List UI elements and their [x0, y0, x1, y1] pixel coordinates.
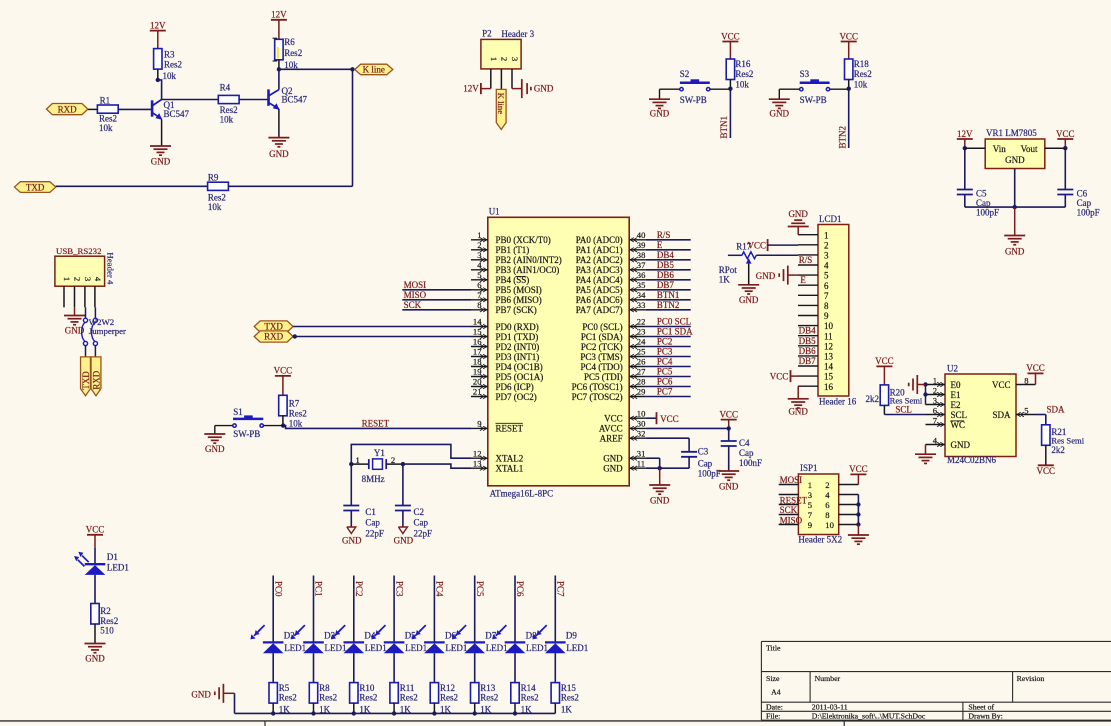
svg-text:4: 4	[933, 435, 938, 445]
svg-text:PC1 SDA: PC1 SDA	[657, 327, 693, 337]
svg-text:DB6: DB6	[657, 270, 675, 280]
svg-text:1: 1	[824, 230, 829, 240]
svg-text:39: 39	[637, 240, 646, 250]
svg-text:5: 5	[1024, 405, 1028, 415]
svg-text:1: 1	[356, 455, 360, 465]
svg-text:PD6 (ICP): PD6 (ICP)	[496, 382, 534, 392]
svg-text:Cap: Cap	[698, 459, 713, 469]
svg-text:19: 19	[473, 367, 482, 377]
svg-text:12V: 12V	[957, 129, 973, 139]
svg-text:PB2 (AIN0/INT2): PB2 (AIN0/INT2)	[496, 255, 562, 265]
svg-text:4: 4	[824, 261, 829, 271]
svg-text:Res2: Res2	[359, 692, 377, 702]
svg-text:LED1: LED1	[365, 643, 387, 653]
svg-text:VCC: VCC	[719, 409, 738, 419]
svg-text:M24C02BN6: M24C02BN6	[947, 455, 997, 465]
svg-text:PC4: PC4	[657, 357, 673, 367]
svg-text:RESET: RESET	[496, 424, 524, 434]
svg-text:LED1: LED1	[284, 643, 306, 653]
svg-text:7: 7	[824, 291, 829, 301]
svg-text:20: 20	[473, 377, 482, 387]
svg-text:R2: R2	[100, 606, 111, 616]
svg-text:VCC: VCC	[992, 380, 1011, 390]
svg-text:LED1: LED1	[325, 643, 347, 653]
svg-text:Res2: Res2	[284, 48, 302, 58]
svg-text:GND: GND	[951, 440, 971, 450]
svg-text:VCC: VCC	[1056, 129, 1075, 139]
svg-text:PC3: PC3	[394, 581, 404, 597]
svg-text:Revision: Revision	[1017, 674, 1045, 683]
svg-text:22pF: 22pF	[414, 529, 433, 539]
svg-text:5: 5	[808, 500, 812, 510]
svg-text:10k: 10k	[735, 80, 749, 90]
svg-text:SCK: SCK	[780, 505, 798, 515]
svg-text:8MHz: 8MHz	[362, 474, 385, 484]
svg-text:33: 33	[637, 300, 646, 310]
svg-text:Res2: Res2	[854, 69, 872, 79]
svg-text:R/S: R/S	[657, 230, 671, 240]
svg-text:ISP1: ISP1	[800, 463, 818, 473]
svg-text:GND: GND	[756, 271, 776, 281]
svg-text:Vin: Vin	[993, 144, 1006, 154]
svg-text:Res2: Res2	[289, 408, 307, 418]
svg-text:Res2: Res2	[561, 692, 579, 702]
svg-text:SDA: SDA	[1047, 404, 1066, 414]
svg-text:21: 21	[473, 387, 482, 397]
svg-text:8: 8	[825, 510, 829, 520]
svg-text:PB7 (SCK): PB7 (SCK)	[496, 305, 537, 315]
svg-text:Y1: Y1	[374, 448, 385, 458]
svg-text:SCK: SCK	[404, 300, 422, 310]
svg-text:100pF: 100pF	[1077, 207, 1100, 217]
svg-text:PC2 (TCK): PC2 (TCK)	[581, 342, 623, 352]
svg-text:S1: S1	[233, 407, 243, 417]
svg-text:PC4: PC4	[435, 581, 445, 597]
svg-text:24: 24	[637, 337, 646, 347]
svg-text:32: 32	[637, 428, 646, 438]
svg-text:U2: U2	[947, 364, 958, 374]
svg-text:Header 3: Header 3	[501, 29, 534, 39]
svg-text:BC547: BC547	[164, 109, 190, 119]
svg-text:E2: E2	[951, 400, 961, 410]
svg-text:13: 13	[473, 458, 482, 468]
svg-text:PB0 (XCK/T0): PB0 (XCK/T0)	[496, 235, 551, 245]
svg-text:15: 15	[824, 372, 834, 382]
svg-text:8: 8	[824, 301, 829, 311]
svg-text:A4: A4	[771, 687, 781, 696]
svg-text:C3: C3	[698, 447, 709, 457]
svg-text:USB_RS232: USB_RS232	[56, 246, 101, 256]
svg-text:2: 2	[499, 57, 509, 61]
svg-text:PC6: PC6	[515, 581, 525, 597]
svg-text:D1: D1	[107, 552, 118, 562]
svg-text:VCC: VCC	[86, 525, 105, 535]
svg-text:27: 27	[637, 367, 646, 377]
svg-text:3: 3	[808, 490, 812, 500]
svg-text:RXD: RXD	[58, 104, 78, 114]
svg-text:10k: 10k	[289, 419, 303, 429]
svg-text:Res2: Res2	[480, 692, 498, 702]
svg-text:PA6 (ADC6): PA6 (ADC6)	[576, 295, 623, 305]
svg-text:PB1 (T1): PB1 (T1)	[496, 245, 530, 255]
svg-text:1: 1	[933, 375, 937, 385]
svg-text:GND: GND	[719, 482, 739, 492]
svg-text:Res2: Res2	[99, 113, 117, 123]
svg-text:Res2: Res2	[220, 105, 238, 115]
svg-text:RXD: RXD	[91, 370, 101, 390]
svg-text:MISO: MISO	[780, 515, 803, 525]
svg-text:SDA: SDA	[992, 410, 1011, 420]
svg-text:9: 9	[824, 311, 829, 321]
svg-text:C4: C4	[739, 438, 750, 448]
svg-text:LED1: LED1	[445, 643, 467, 653]
svg-text:GND: GND	[205, 444, 225, 454]
svg-text:Res2: Res2	[164, 59, 182, 69]
svg-text:DB4: DB4	[799, 326, 817, 336]
svg-text:34: 34	[637, 290, 646, 300]
svg-text:MOSI: MOSI	[780, 475, 803, 485]
svg-text:GND: GND	[191, 689, 211, 699]
svg-text:S3: S3	[800, 69, 810, 79]
svg-text:XTAL1: XTAL1	[496, 464, 524, 474]
svg-text:GND: GND	[342, 536, 362, 546]
svg-text:4: 4	[825, 490, 830, 500]
svg-text:PC3: PC3	[657, 347, 673, 357]
svg-text:GND: GND	[269, 149, 289, 159]
svg-text:23: 23	[637, 327, 646, 337]
svg-text:LED1: LED1	[107, 563, 129, 573]
svg-text:14: 14	[824, 362, 834, 372]
svg-text:12V: 12V	[150, 20, 166, 30]
svg-text:SCL: SCL	[951, 410, 968, 420]
svg-text:VCC: VCC	[721, 31, 740, 41]
svg-text:3: 3	[933, 395, 937, 405]
svg-text:GND: GND	[788, 407, 808, 417]
svg-text:11: 11	[824, 331, 833, 341]
svg-text:R9: R9	[208, 172, 219, 182]
svg-text:R18: R18	[854, 59, 870, 69]
svg-text:VCC: VCC	[770, 372, 789, 382]
svg-text:R17: R17	[736, 241, 752, 251]
svg-text:26: 26	[637, 357, 646, 367]
svg-text:GND: GND	[603, 454, 623, 464]
svg-text:PB6 (MISO): PB6 (MISO)	[496, 295, 542, 305]
svg-text:VCC: VCC	[849, 464, 868, 474]
svg-text:510: 510	[100, 626, 114, 636]
svg-text:D:\Elektronika_soft\..\MUT.Sch: D:\Elektronika_soft\..\MUT.SchDoc	[812, 712, 926, 721]
svg-text:AREF: AREF	[600, 434, 623, 444]
svg-text:12: 12	[473, 448, 482, 458]
svg-text:PA1 (ADC1): PA1 (ADC1)	[576, 245, 623, 255]
svg-text:PC6 (TOSC1): PC6 (TOSC1)	[572, 382, 623, 392]
svg-text:Res2: Res2	[440, 692, 458, 702]
svg-text:PC0: PC0	[273, 581, 283, 597]
svg-text:R7: R7	[289, 398, 300, 408]
svg-text:Title: Title	[766, 643, 781, 652]
svg-text:7: 7	[808, 510, 813, 520]
svg-text:12V: 12V	[271, 10, 287, 20]
svg-text:16: 16	[824, 382, 834, 392]
svg-text:2: 2	[824, 240, 829, 250]
svg-text:31: 31	[637, 448, 646, 458]
svg-text:18: 18	[473, 357, 482, 367]
svg-text:E: E	[657, 240, 663, 250]
svg-text:GND: GND	[603, 464, 623, 474]
svg-text:10k: 10k	[854, 80, 868, 90]
svg-text:PD0 (RXD): PD0 (RXD)	[496, 322, 539, 332]
svg-text:PD2 (INT0): PD2 (INT0)	[496, 342, 540, 352]
svg-text:GND: GND	[394, 536, 414, 546]
svg-text:VCC: VCC	[1037, 466, 1056, 476]
svg-text:PD5 (OC1A): PD5 (OC1A)	[496, 372, 544, 382]
svg-text:GND: GND	[1005, 247, 1025, 257]
svg-text:12: 12	[824, 341, 833, 351]
svg-text:R6: R6	[284, 37, 295, 47]
svg-text:VCC: VCC	[839, 31, 858, 41]
svg-text:PB3 (AIN1/OC0): PB3 (AIN1/OC0)	[496, 265, 560, 275]
svg-text:SW-PB: SW-PB	[680, 95, 707, 105]
svg-text:ATmega16L-8PC: ATmega16L-8PC	[490, 488, 553, 498]
svg-text:10: 10	[825, 520, 834, 530]
svg-text:Cap: Cap	[414, 518, 429, 528]
svg-text:PD7 (OC2): PD7 (OC2)	[496, 392, 537, 402]
svg-text:DB4: DB4	[657, 250, 675, 260]
svg-text:BC547: BC547	[282, 94, 308, 104]
svg-text:GND: GND	[650, 496, 670, 506]
svg-text:VR1 LM7805: VR1 LM7805	[986, 128, 1037, 138]
svg-text:Res2: Res2	[735, 69, 753, 79]
svg-text:1: 1	[808, 480, 812, 490]
svg-text:AVCC: AVCC	[599, 424, 623, 434]
svg-text:Header 4: Header 4	[105, 252, 115, 285]
svg-text:9: 9	[808, 520, 812, 530]
svg-text:MOSI: MOSI	[404, 280, 427, 290]
svg-text:30: 30	[637, 419, 646, 429]
svg-text:7: 7	[933, 415, 938, 425]
svg-text:LED1: LED1	[526, 643, 548, 653]
svg-text:PA7 (ADC7): PA7 (ADC7)	[576, 305, 623, 315]
svg-text:13: 13	[824, 352, 834, 362]
svg-text:RESET: RESET	[362, 419, 390, 429]
svg-text:PC0 SCL: PC0 SCL	[657, 317, 691, 327]
svg-text:36: 36	[637, 270, 646, 280]
svg-text:PA4 (ADC4): PA4 (ADC4)	[576, 275, 623, 285]
svg-text:C1: C1	[365, 507, 376, 517]
svg-text:40: 40	[637, 230, 646, 240]
svg-text:Res2: Res2	[521, 692, 539, 702]
svg-text:S2: S2	[680, 69, 690, 79]
svg-text:R4: R4	[220, 82, 231, 92]
svg-text:Cap: Cap	[365, 518, 380, 528]
svg-text:LCD1: LCD1	[819, 214, 842, 224]
svg-text:SW-PB: SW-PB	[800, 95, 827, 105]
svg-text:VCC: VCC	[875, 356, 894, 366]
svg-text:TXD: TXD	[26, 182, 45, 192]
svg-text:6: 6	[824, 281, 829, 291]
svg-text:GND: GND	[534, 84, 554, 94]
svg-text:GND: GND	[650, 109, 670, 119]
svg-text:2011-03-11: 2011-03-11	[812, 702, 848, 711]
svg-text:VCC: VCC	[1026, 363, 1045, 373]
svg-text:PC7 (TOSC2): PC7 (TOSC2)	[572, 392, 623, 402]
svg-text:22: 22	[637, 317, 646, 327]
svg-text:U1: U1	[489, 207, 500, 217]
svg-text:1K: 1K	[719, 274, 731, 284]
svg-text:K line: K line	[496, 93, 506, 114]
svg-text:PC3 (TMS): PC3 (TMS)	[580, 352, 622, 362]
svg-text:DB7: DB7	[657, 280, 675, 290]
svg-text:2: 2	[825, 480, 829, 490]
svg-text:2k2: 2k2	[1051, 445, 1065, 455]
svg-text:Header 5X2: Header 5X2	[798, 535, 842, 545]
svg-text:6: 6	[933, 405, 938, 415]
svg-text:DB5: DB5	[657, 260, 675, 270]
svg-text:10k: 10k	[220, 115, 234, 125]
svg-text:10: 10	[824, 321, 834, 331]
svg-text:Sheet of: Sheet of	[968, 702, 994, 711]
svg-text:File:: File:	[766, 712, 780, 721]
svg-text:GND: GND	[770, 109, 790, 119]
svg-text:LED1: LED1	[566, 643, 588, 653]
svg-text:PC1 (SDA): PC1 (SDA)	[581, 332, 623, 342]
svg-text:PC5 (TDI): PC5 (TDI)	[584, 372, 623, 382]
svg-text:TXD: TXD	[264, 322, 283, 332]
svg-text:11: 11	[637, 458, 645, 468]
svg-text:Size: Size	[766, 674, 780, 683]
svg-text:C2: C2	[414, 507, 425, 517]
svg-text:100pF: 100pF	[976, 207, 999, 217]
svg-text:Res2: Res2	[208, 193, 226, 203]
svg-text:10k: 10k	[208, 202, 222, 212]
svg-text:VCC: VCC	[660, 414, 679, 424]
svg-text:25: 25	[637, 347, 646, 357]
svg-text:3: 3	[824, 251, 829, 261]
svg-text:BTN1: BTN1	[719, 116, 729, 139]
svg-text:Drawn By:: Drawn By:	[968, 712, 1002, 721]
svg-text:E: E	[800, 275, 806, 285]
svg-text:BTN1: BTN1	[657, 290, 680, 300]
svg-text:R3: R3	[164, 49, 175, 59]
svg-text:D9: D9	[566, 630, 577, 640]
svg-text:Date:: Date:	[766, 702, 783, 711]
svg-text:PD3 (INT1): PD3 (INT1)	[496, 352, 540, 362]
svg-text:PC7: PC7	[556, 581, 566, 597]
svg-text:3: 3	[510, 57, 520, 61]
svg-text:100pF: 100pF	[698, 469, 721, 479]
svg-text:PC5: PC5	[657, 367, 673, 377]
svg-text:1: 1	[62, 277, 72, 281]
svg-text:10: 10	[637, 408, 646, 418]
svg-text:P2: P2	[482, 28, 492, 38]
svg-text:PA2 (ADC2): PA2 (ADC2)	[576, 255, 623, 265]
svg-text:3: 3	[83, 277, 93, 281]
svg-text:29: 29	[637, 387, 646, 397]
svg-text:5: 5	[824, 271, 829, 281]
svg-text:E0: E0	[951, 380, 961, 390]
svg-text:RESET: RESET	[780, 495, 808, 505]
svg-text:10k: 10k	[99, 123, 113, 133]
svg-text:Res2: Res2	[100, 616, 118, 626]
svg-text:2: 2	[391, 455, 395, 465]
svg-text:35: 35	[637, 280, 646, 290]
svg-text:8: 8	[1024, 375, 1028, 385]
svg-text:1: 1	[489, 57, 499, 61]
svg-text:PB5 (MOSI): PB5 (MOSI)	[496, 285, 542, 295]
svg-text:4: 4	[93, 277, 103, 282]
svg-text:6: 6	[825, 500, 830, 510]
svg-text:LED1: LED1	[405, 643, 427, 653]
svg-text:R1: R1	[100, 95, 111, 105]
svg-text:RXD: RXD	[264, 332, 284, 342]
svg-text:PC0 (SCL): PC0 (SCL)	[582, 322, 622, 332]
svg-text:GND: GND	[85, 654, 105, 664]
svg-text:DB7: DB7	[799, 356, 817, 366]
svg-text:GND: GND	[1005, 155, 1025, 165]
svg-text:SCL: SCL	[895, 404, 912, 414]
svg-text:E1: E1	[951, 390, 961, 400]
svg-text:PC1: PC1	[314, 581, 324, 597]
svg-text:Header 16: Header 16	[819, 397, 857, 407]
svg-text:BTN2: BTN2	[657, 300, 680, 310]
svg-text:PA5 (ADC5): PA5 (ADC5)	[576, 285, 623, 295]
svg-text:C6: C6	[1077, 188, 1088, 198]
svg-text:10k: 10k	[163, 71, 177, 81]
svg-text:Jumperper: Jumperper	[89, 326, 126, 336]
svg-text:Number: Number	[815, 674, 841, 683]
svg-text:Res2: Res2	[319, 692, 337, 702]
svg-text:GND: GND	[739, 295, 759, 305]
svg-text:15: 15	[473, 327, 482, 337]
svg-text:VCC: VCC	[274, 366, 293, 376]
svg-text:PC2: PC2	[354, 581, 364, 597]
svg-text:Res2: Res2	[279, 692, 297, 702]
svg-text:R16: R16	[735, 59, 751, 69]
svg-text:PA3 (ADC3): PA3 (ADC3)	[576, 265, 623, 275]
svg-text:22pF: 22pF	[365, 529, 384, 539]
svg-text:PD1 (TXD): PD1 (TXD)	[496, 332, 539, 342]
svg-text:DB5: DB5	[799, 336, 817, 346]
svg-text:VCC: VCC	[604, 414, 623, 424]
svg-text:PC5: PC5	[475, 581, 485, 597]
svg-text:LED1: LED1	[486, 643, 508, 653]
svg-text:37: 37	[637, 260, 646, 270]
svg-text:GND: GND	[788, 209, 808, 219]
svg-text:12V: 12V	[463, 84, 479, 94]
svg-text:2k2: 2k2	[866, 394, 880, 404]
svg-text:2: 2	[933, 385, 937, 395]
svg-text:R/S: R/S	[799, 255, 813, 265]
svg-text:K line: K line	[363, 65, 385, 75]
svg-text:38: 38	[637, 250, 646, 260]
svg-text:100nF: 100nF	[739, 458, 762, 468]
svg-text:Res2: Res2	[400, 692, 418, 702]
svg-text:PC4 (TDO): PC4 (TDO)	[580, 362, 622, 372]
svg-text:GND: GND	[151, 157, 171, 167]
svg-text:PC6: PC6	[657, 377, 673, 387]
svg-text:TXD: TXD	[81, 371, 91, 390]
svg-text:PD4 (OC1B): PD4 (OC1B)	[496, 362, 543, 372]
svg-text:PC7: PC7	[657, 387, 673, 397]
svg-text:2: 2	[73, 277, 83, 281]
svg-text:C5: C5	[976, 188, 987, 198]
svg-text:DB6: DB6	[799, 346, 817, 356]
svg-text:Cap: Cap	[739, 448, 754, 458]
svg-text:Vout: Vout	[1021, 144, 1038, 154]
svg-text:PA0 (ADC0): PA0 (ADC0)	[576, 235, 623, 245]
svg-text:MISO: MISO	[404, 290, 427, 300]
svg-text:1K: 1K	[561, 704, 573, 714]
svg-text:PC2: PC2	[657, 337, 673, 347]
